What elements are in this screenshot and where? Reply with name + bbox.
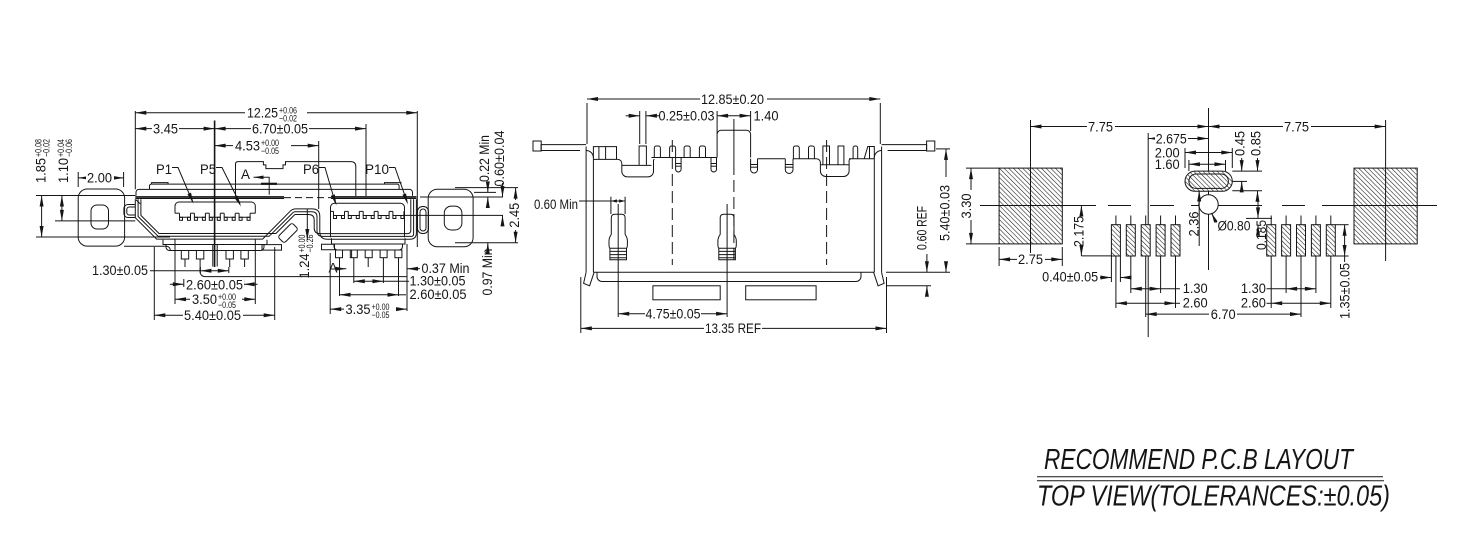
svg-text:2.00: 2.00 xyxy=(87,170,112,185)
dimension 1.10 left xyxy=(56,139,74,183)
dimension 2.675 xyxy=(1147,133,1149,337)
right cavity tongue P6-P10 xyxy=(331,203,405,237)
shell outline mid xyxy=(138,199,414,236)
dimension 3.50 bottom left xyxy=(174,240,176,305)
dimension 0.25 xyxy=(639,111,641,144)
shell outline inner / cavity wall xyxy=(141,199,295,233)
shell top thick line xyxy=(135,196,284,198)
small pads right group xyxy=(1267,225,1276,256)
dimension 13.35 REF xyxy=(580,277,582,333)
central tab left ext xyxy=(716,111,718,134)
left large pad xyxy=(999,168,1062,244)
dimension 4.53 xyxy=(318,141,320,209)
svg-text:4.75±0.05: 4.75±0.05 xyxy=(646,306,701,321)
left cavity tongue P1-P5 xyxy=(175,202,255,213)
dimension 2.00 xyxy=(1184,148,1186,168)
svg-text:0.85: 0.85 xyxy=(1248,131,1263,156)
dimension 6.70 xyxy=(365,124,367,196)
right wing xyxy=(882,145,927,151)
dimension 2.45 right xyxy=(455,187,518,189)
left tab hole xyxy=(91,205,109,229)
dimension 0.22 Min right xyxy=(477,135,492,182)
svg-text:P6: P6 xyxy=(303,162,319,177)
left wing xyxy=(541,145,586,151)
svg-text:0.45: 0.45 xyxy=(1233,131,1248,156)
pad wires below right xyxy=(1270,256,1272,308)
dimension 1.85 left xyxy=(33,139,51,183)
latch spring right xyxy=(720,214,734,234)
svg-text:6.70: 6.70 xyxy=(1211,307,1236,322)
top edge profile left half xyxy=(593,147,616,160)
dimension 0.97 Min right xyxy=(487,243,489,252)
svg-text:−0.06: −0.06 xyxy=(64,139,74,157)
dimension 1.40 xyxy=(750,111,752,131)
circle pad xyxy=(1199,195,1218,214)
bottom corner feet xyxy=(584,272,595,286)
svg-text:12.25: 12.25 xyxy=(247,106,278,121)
corner tick xyxy=(136,200,140,204)
svg-text:7.75: 7.75 xyxy=(1284,119,1309,134)
right pins xyxy=(336,250,343,258)
svg-text:1.30: 1.30 xyxy=(1183,281,1208,296)
svg-text:1.85: 1.85 xyxy=(34,158,49,183)
right tab neck xyxy=(418,207,429,234)
svg-text:0.25±0.03: 0.25±0.03 xyxy=(659,109,715,124)
dimension 5.40 bottom left xyxy=(153,247,155,320)
svg-text:2.60: 2.60 xyxy=(1183,296,1208,311)
dimension 7.75 right xyxy=(1209,126,1386,128)
mid hump detail piece xyxy=(278,223,299,244)
dimension 0.85 xyxy=(1248,131,1263,156)
top plate bump xyxy=(152,183,168,185)
bottom tabs xyxy=(653,286,720,300)
pad wires below left xyxy=(1115,256,1117,308)
dashed center lines xyxy=(671,140,673,265)
svg-text:Ø0.80: Ø0.80 xyxy=(1218,219,1251,234)
svg-text:1.60: 1.60 xyxy=(1155,157,1180,172)
svg-text:RECOMMEND P.C.B LAYOUT: RECOMMEND P.C.B LAYOUT xyxy=(1044,444,1355,476)
svg-text:3.45: 3.45 xyxy=(153,121,178,136)
svg-text:2.60±0.05: 2.60±0.05 xyxy=(410,287,467,302)
svg-text:1.35±0.05: 1.35±0.05 xyxy=(1338,263,1353,319)
svg-text:6.70±0.05: 6.70±0.05 xyxy=(252,121,308,136)
dimension 0.60 right xyxy=(492,130,507,186)
shell top plate xyxy=(150,184,400,189)
horizontal center line xyxy=(1108,205,1131,207)
dimension 1.35 xyxy=(1335,224,1348,226)
svg-text:3.50: 3.50 xyxy=(192,292,217,307)
svg-text:P1: P1 xyxy=(156,162,172,177)
svg-text:2.675: 2.675 xyxy=(1156,131,1187,146)
dimension 3.35 bottom right xyxy=(329,253,331,314)
svg-text:1.30: 1.30 xyxy=(1241,281,1266,296)
svg-text:2.175: 2.175 xyxy=(1071,216,1086,247)
svg-text:2.75: 2.75 xyxy=(1018,252,1043,267)
svg-text:0.60 REF: 0.60 REF xyxy=(915,206,930,250)
right mounting tab xyxy=(428,189,473,247)
central tab xyxy=(717,130,751,157)
dimension 2.60 bottom right xyxy=(340,294,399,296)
svg-text:−0.02: −0.02 xyxy=(41,139,51,157)
svg-text:P10: P10 xyxy=(365,162,389,177)
middle view: bottom view of receptacle xyxy=(533,92,953,336)
svg-text:5.40±0.05: 5.40±0.05 xyxy=(184,308,241,323)
label diameter 0.80 xyxy=(1212,213,1218,222)
bottom plate xyxy=(597,272,861,281)
svg-text:2.45: 2.45 xyxy=(507,203,522,228)
pin with 0.25 dim xyxy=(639,146,646,165)
left bracket plate xyxy=(124,245,167,247)
svg-text:12.85±0.20: 12.85±0.20 xyxy=(701,92,764,107)
latch spring left xyxy=(611,214,625,234)
dimension 2.60 left pads xyxy=(1116,302,1176,304)
title: RECOMMEND P.C.B LAYOUT xyxy=(1037,444,1390,513)
top edge profile right half xyxy=(751,159,758,173)
dimension 3.30 xyxy=(966,167,999,169)
right tab hole xyxy=(444,206,462,230)
dimension 5.40 right xyxy=(936,148,950,150)
left shell latch bump xyxy=(124,205,135,218)
dimension 2.00 xyxy=(77,172,79,187)
svg-text:−0.05: −0.05 xyxy=(261,146,279,156)
svg-text:0.60±0.04: 0.60±0.04 xyxy=(492,130,507,186)
right view: recommended PCB layout xyxy=(959,108,1437,337)
left pins xyxy=(181,251,188,260)
dimension 0.60 REF right xyxy=(886,285,931,287)
dimension 12.25 xyxy=(134,111,136,189)
svg-text:1.24: 1.24 xyxy=(297,253,312,278)
svg-text:0.40±0.05: 0.40±0.05 xyxy=(1042,270,1098,285)
svg-text:3.35: 3.35 xyxy=(346,302,371,317)
dimension 0.37 Min xyxy=(406,244,408,311)
body side walls xyxy=(585,147,587,273)
svg-text:13.35 REF: 13.35 REF xyxy=(705,321,761,336)
dimension 0.185 xyxy=(1246,217,1272,219)
dimension 3.45 xyxy=(214,121,216,268)
left skirt plates xyxy=(163,240,267,245)
left view: front view of receptacle xyxy=(33,104,522,323)
dimension 1.30 left pads xyxy=(1131,288,1161,290)
svg-text:A: A xyxy=(241,167,250,182)
dimension 6.70 pads xyxy=(1146,313,1301,315)
svg-text:5.40±0.03: 5.40±0.03 xyxy=(938,185,953,241)
left mounting tab xyxy=(78,189,124,246)
right pad center lines xyxy=(1385,120,1387,261)
svg-text:2.60±0.05: 2.60±0.05 xyxy=(186,277,243,292)
svg-text:0.22 Min: 0.22 Min xyxy=(477,135,492,182)
right large pad xyxy=(1354,168,1417,244)
center oblong slot pad xyxy=(1185,171,1232,191)
dimension 7.75 left xyxy=(1031,126,1209,128)
dimension 2.75 xyxy=(998,247,1000,266)
svg-text:0.97 Min: 0.97 Min xyxy=(480,249,495,296)
dimension 4.75 xyxy=(618,313,727,315)
dimension 1.24 mid xyxy=(306,209,308,240)
svg-text:−0.05: −0.05 xyxy=(372,310,390,320)
small pads left group xyxy=(1111,225,1120,256)
svg-text:2.60: 2.60 xyxy=(1241,296,1266,311)
svg-text:1.10: 1.10 xyxy=(56,158,71,183)
svg-text:0.60 Min: 0.60 Min xyxy=(534,197,578,212)
svg-text:1.30±0.05: 1.30±0.05 xyxy=(92,263,148,278)
mid hump foot plate xyxy=(262,245,282,251)
svg-text:2.36: 2.36 xyxy=(1187,212,1202,237)
dimension 2.175 xyxy=(1080,206,1082,215)
shell top fold xyxy=(136,189,413,195)
section line bottom xyxy=(200,267,407,276)
dimension 1.60 xyxy=(1188,160,1190,171)
svg-text:7.75: 7.75 xyxy=(1088,119,1113,134)
svg-text:TOP VIEW(TOLERANCES:±0.05): TOP VIEW(TOLERANCES:±0.05) xyxy=(1037,481,1390,513)
dimension 2.60 bottom left xyxy=(183,279,185,287)
dimension 0.45 xyxy=(1233,131,1248,156)
svg-text:P5: P5 xyxy=(200,162,216,177)
svg-text:1.40: 1.40 xyxy=(754,109,779,124)
shell outline outer xyxy=(135,199,416,239)
bottom floor xyxy=(593,271,874,273)
dimension 2.36 xyxy=(1198,191,1200,247)
rear housing plate with notch xyxy=(236,162,356,196)
svg-text:−0.26: −0.26 xyxy=(305,235,315,253)
dimension 12.85 xyxy=(586,103,588,144)
left pad center lines xyxy=(1030,120,1032,261)
svg-text:4.53: 4.53 xyxy=(235,138,260,153)
right skirt plates xyxy=(332,238,406,244)
center vertical line xyxy=(1208,108,1210,270)
svg-text:3.30: 3.30 xyxy=(959,194,974,219)
dimension 1.30 bottom right xyxy=(354,280,384,282)
